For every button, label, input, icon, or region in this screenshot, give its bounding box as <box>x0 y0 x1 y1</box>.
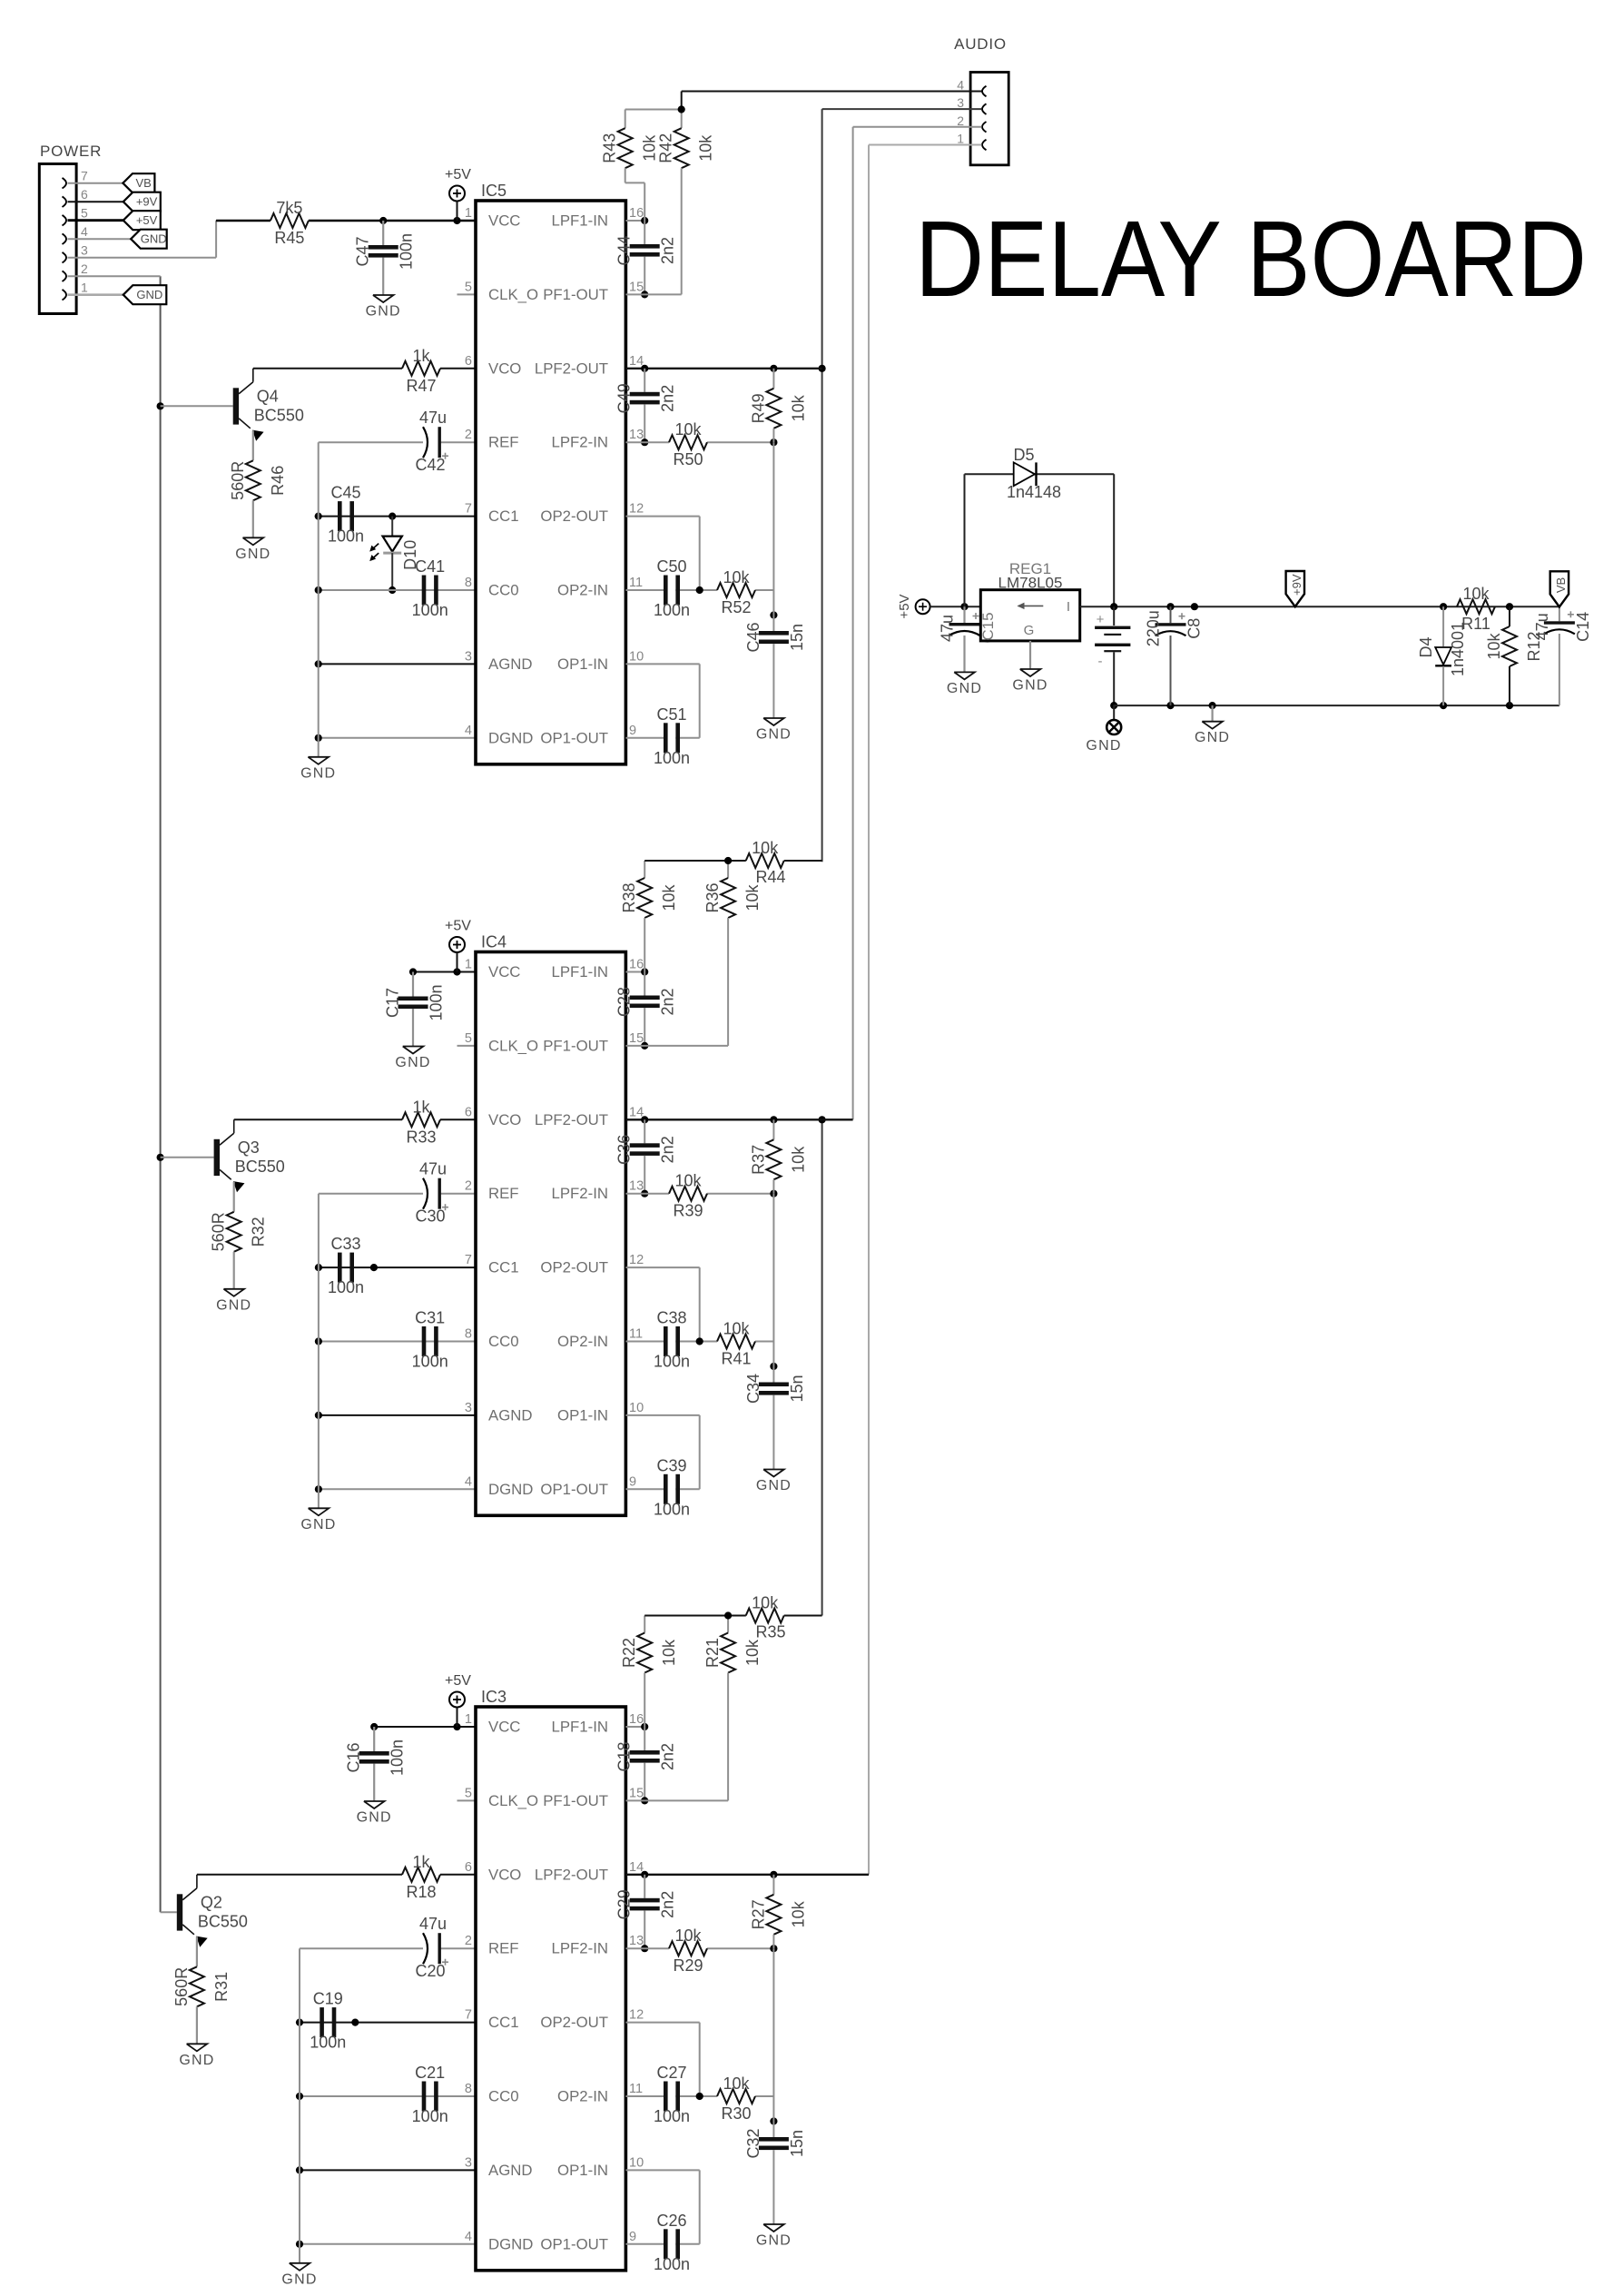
svg-text:2n2: 2n2 <box>659 988 677 1015</box>
svg-text:8: 8 <box>465 2082 472 2096</box>
svg-text:CC0: CC0 <box>488 582 519 599</box>
svg-text:DELAY BOARD: DELAY BOARD <box>915 199 1587 320</box>
svg-text:C26: C26 <box>656 2212 686 2230</box>
svg-text:R49: R49 <box>749 393 767 423</box>
svg-text:15n: 15n <box>788 624 806 651</box>
svg-text:C18: C18 <box>615 1741 634 1771</box>
svg-text:OP1-IN: OP1-IN <box>557 655 608 673</box>
svg-text:+5V: +5V <box>897 594 912 618</box>
svg-text:100n: 100n <box>328 1278 364 1296</box>
svg-text:10k: 10k <box>723 1320 750 1338</box>
svg-text:CLK_O: CLK_O <box>488 286 538 303</box>
svg-text:R45: R45 <box>274 229 304 247</box>
svg-text:100n: 100n <box>654 601 690 619</box>
svg-text:10k: 10k <box>660 1639 678 1666</box>
svg-text:1: 1 <box>465 958 472 972</box>
svg-text:+5V: +5V <box>445 167 471 182</box>
svg-text:560R: 560R <box>210 1212 228 1251</box>
svg-text:2: 2 <box>81 261 88 276</box>
svg-text:GND: GND <box>357 1810 392 1826</box>
svg-text:DGND: DGND <box>488 2235 533 2252</box>
svg-text:R32: R32 <box>250 1217 268 1247</box>
svg-text:10: 10 <box>629 1401 644 1415</box>
svg-text:LPF2-IN: LPF2-IN <box>552 1940 608 1957</box>
svg-text:OP1-IN: OP1-IN <box>557 2162 608 2179</box>
svg-text:GND: GND <box>366 304 401 320</box>
svg-text:10k: 10k <box>752 839 779 857</box>
svg-text:+5V: +5V <box>445 919 471 934</box>
svg-text:R42: R42 <box>657 133 675 163</box>
svg-text:9: 9 <box>629 2230 636 2244</box>
svg-text:R46: R46 <box>269 466 287 496</box>
svg-text:C32: C32 <box>744 2128 762 2158</box>
svg-text:AGND: AGND <box>488 655 532 673</box>
svg-text:100n: 100n <box>412 601 448 619</box>
svg-text:CC1: CC1 <box>488 507 519 525</box>
svg-text:1k: 1k <box>412 1098 430 1116</box>
svg-text:LPF1-IN: LPF1-IN <box>552 212 608 230</box>
svg-text:LPF2-OUT: LPF2-OUT <box>535 1866 608 1883</box>
svg-text:47u: 47u <box>419 409 447 427</box>
svg-text:16: 16 <box>629 206 644 221</box>
svg-text:10: 10 <box>629 2155 644 2170</box>
svg-text:C47: C47 <box>354 236 372 266</box>
svg-text:11: 11 <box>629 2082 643 2096</box>
svg-text:47u: 47u <box>1533 613 1551 640</box>
svg-text:R18: R18 <box>406 1883 436 1901</box>
svg-text:OP1-OUT: OP1-OUT <box>540 729 608 746</box>
svg-text:15: 15 <box>629 280 644 294</box>
svg-text:16: 16 <box>629 1712 644 1727</box>
svg-text:GND: GND <box>1086 738 1121 754</box>
svg-text:C38: C38 <box>656 1309 686 1327</box>
svg-text:OP2-IN: OP2-IN <box>557 582 608 599</box>
svg-text:OP2-IN: OP2-IN <box>557 2088 608 2105</box>
svg-text:VCC: VCC <box>488 212 520 230</box>
svg-text:R38: R38 <box>620 882 638 912</box>
svg-text:11: 11 <box>629 576 643 590</box>
svg-text:R21: R21 <box>703 1638 722 1668</box>
svg-text:10k: 10k <box>743 883 762 911</box>
svg-text:C27: C27 <box>656 2064 686 2082</box>
svg-text:10k: 10k <box>641 134 659 162</box>
svg-text:C14: C14 <box>1574 612 1592 642</box>
svg-text:VCO: VCO <box>488 1111 521 1128</box>
svg-text:LPF1-IN: LPF1-IN <box>552 963 608 980</box>
svg-text:BC550: BC550 <box>198 1912 248 1930</box>
svg-text:OP1-OUT: OP1-OUT <box>540 2235 608 2252</box>
svg-text:C36: C36 <box>615 1135 634 1165</box>
svg-text:GND: GND <box>300 1517 336 1532</box>
svg-text:560R: 560R <box>172 1967 191 2006</box>
svg-text:13: 13 <box>629 1179 644 1194</box>
svg-text:AGND: AGND <box>488 2162 532 2179</box>
svg-text:C31: C31 <box>415 1309 445 1327</box>
svg-text:VB: VB <box>1554 577 1568 593</box>
svg-text:C50: C50 <box>656 557 686 576</box>
svg-text:PF1-OUT: PF1-OUT <box>543 1792 608 1809</box>
svg-text:C19: C19 <box>313 1990 343 2008</box>
svg-text:11: 11 <box>629 1327 643 1342</box>
svg-text:12: 12 <box>629 2008 644 2023</box>
svg-text:10k: 10k <box>660 883 678 911</box>
svg-text:100n: 100n <box>328 527 364 546</box>
svg-text:8: 8 <box>465 576 472 590</box>
svg-text:2n2: 2n2 <box>659 1743 677 1770</box>
svg-text:3: 3 <box>465 2155 472 2170</box>
svg-text:OP2-OUT: OP2-OUT <box>540 507 608 525</box>
svg-text:LM78L05: LM78L05 <box>998 575 1063 592</box>
svg-text:6: 6 <box>465 1860 472 1875</box>
svg-text:+5V: +5V <box>136 213 158 227</box>
svg-text:1: 1 <box>957 132 964 146</box>
svg-text:10k: 10k <box>674 1926 702 1945</box>
svg-text:3: 3 <box>957 95 964 110</box>
svg-text:R30: R30 <box>721 2104 751 2123</box>
svg-text:BC550: BC550 <box>235 1158 285 1176</box>
svg-text:GND: GND <box>235 547 270 562</box>
svg-text:6: 6 <box>81 187 88 202</box>
svg-text:10k: 10k <box>743 1639 762 1666</box>
svg-text:14: 14 <box>629 1860 644 1875</box>
svg-text:1: 1 <box>81 281 88 295</box>
svg-text:10k: 10k <box>723 2074 750 2093</box>
svg-text:OP1-IN: OP1-IN <box>557 1406 608 1424</box>
svg-text:C45: C45 <box>330 484 360 502</box>
svg-text:16: 16 <box>629 958 644 972</box>
svg-text:C20: C20 <box>415 1962 445 1980</box>
svg-text:8: 8 <box>465 1327 472 1342</box>
svg-text:1k: 1k <box>412 1853 430 1871</box>
svg-text:100n: 100n <box>412 1353 448 1371</box>
svg-text:VCC: VCC <box>488 1719 520 1736</box>
svg-text:1k: 1k <box>412 347 430 365</box>
svg-text:GND: GND <box>216 1297 251 1313</box>
svg-text:R43: R43 <box>601 133 619 163</box>
svg-text:15: 15 <box>629 1031 644 1046</box>
svg-text:GND: GND <box>179 2053 214 2068</box>
svg-text:Q4: Q4 <box>257 387 279 405</box>
svg-text:9: 9 <box>629 724 636 738</box>
svg-text:15n: 15n <box>788 2130 806 2157</box>
svg-text:G: G <box>1024 623 1035 638</box>
svg-text:C34: C34 <box>744 1374 762 1404</box>
svg-text:5: 5 <box>465 1786 472 1800</box>
svg-text:R50: R50 <box>673 450 703 468</box>
svg-text:100n: 100n <box>398 233 416 270</box>
svg-text:C51: C51 <box>656 705 686 724</box>
svg-text:5: 5 <box>465 280 472 294</box>
svg-text:R41: R41 <box>721 1350 751 1368</box>
svg-text:R33: R33 <box>406 1128 436 1146</box>
svg-text:47u: 47u <box>939 615 957 642</box>
svg-text:CLK_O: CLK_O <box>488 1792 538 1809</box>
svg-text:CC1: CC1 <box>488 1259 519 1276</box>
svg-text:I: I <box>1067 599 1070 615</box>
svg-text:PF1-OUT: PF1-OUT <box>543 1037 608 1054</box>
svg-text:REF: REF <box>488 1940 519 1957</box>
svg-text:2: 2 <box>957 113 964 128</box>
svg-text:LPF2-IN: LPF2-IN <box>552 434 608 451</box>
svg-text:4: 4 <box>957 78 964 93</box>
svg-text:OP2-IN: OP2-IN <box>557 1333 608 1350</box>
svg-text:C29: C29 <box>615 1889 634 1919</box>
svg-text:R44: R44 <box>755 868 785 886</box>
svg-text:D5: D5 <box>1013 446 1034 464</box>
svg-text:2: 2 <box>465 428 472 442</box>
svg-text:GND: GND <box>756 727 792 743</box>
svg-text:C8: C8 <box>1185 618 1204 639</box>
svg-text:100n: 100n <box>654 2107 690 2125</box>
svg-text:OP1-OUT: OP1-OUT <box>540 1481 608 1498</box>
svg-text:3: 3 <box>81 243 88 258</box>
svg-text:10k: 10k <box>697 134 715 162</box>
svg-text:10k: 10k <box>674 1172 702 1190</box>
svg-text:100n: 100n <box>654 2255 690 2273</box>
svg-text:R36: R36 <box>703 882 722 912</box>
svg-text:AUDIO: AUDIO <box>954 35 1007 53</box>
svg-text:1n4148: 1n4148 <box>1007 483 1061 501</box>
svg-text:C46: C46 <box>744 622 762 652</box>
svg-text:1n4001: 1n4001 <box>1449 622 1467 676</box>
svg-text:2: 2 <box>465 1179 472 1194</box>
svg-text:CC0: CC0 <box>488 2088 519 2105</box>
svg-text:10k: 10k <box>789 394 807 421</box>
svg-text:GND: GND <box>300 765 336 781</box>
svg-text:GND: GND <box>141 232 167 246</box>
svg-text:VCO: VCO <box>488 1866 521 1883</box>
svg-text:VCC: VCC <box>488 963 520 980</box>
svg-text:+9V: +9V <box>136 195 158 209</box>
svg-text:OP2-OUT: OP2-OUT <box>540 1259 608 1276</box>
svg-text:10k: 10k <box>789 1146 807 1173</box>
svg-text:100n: 100n <box>654 1500 690 1518</box>
svg-text:C49: C49 <box>615 383 634 413</box>
svg-text:10k: 10k <box>1485 632 1503 659</box>
svg-text:REF: REF <box>488 1185 519 1202</box>
svg-text:7k5: 7k5 <box>276 199 302 217</box>
svg-text:7: 7 <box>81 169 88 183</box>
svg-text:7: 7 <box>465 2008 472 2023</box>
svg-text:BC550: BC550 <box>254 406 304 424</box>
svg-text:LPF1-IN: LPF1-IN <box>552 1719 608 1736</box>
svg-text:47u: 47u <box>419 1915 447 1933</box>
svg-text:Q2: Q2 <box>201 1893 222 1911</box>
svg-text:6: 6 <box>465 354 472 369</box>
svg-text:R39: R39 <box>673 1202 703 1220</box>
svg-text:2n2: 2n2 <box>659 385 677 412</box>
svg-text:CC0: CC0 <box>488 1333 519 1350</box>
svg-text:GND: GND <box>947 681 982 696</box>
svg-text:CLK_O: CLK_O <box>488 1037 538 1054</box>
svg-text:IC5: IC5 <box>481 182 507 200</box>
svg-text:OP2-OUT: OP2-OUT <box>540 2014 608 2031</box>
svg-text:POWER: POWER <box>40 143 102 160</box>
svg-text:R31: R31 <box>212 1972 231 2002</box>
svg-text:GND: GND <box>756 2233 792 2249</box>
svg-text:2: 2 <box>465 1934 472 1948</box>
svg-text:R27: R27 <box>749 1899 767 1929</box>
svg-text:10k: 10k <box>674 420 702 439</box>
svg-text:560R: 560R <box>229 461 247 500</box>
svg-text:DGND: DGND <box>488 1481 533 1498</box>
svg-text:4: 4 <box>465 2230 472 2244</box>
svg-text:5: 5 <box>81 206 88 221</box>
svg-text:C21: C21 <box>415 2064 445 2082</box>
svg-text:C41: C41 <box>415 557 445 576</box>
svg-text:R47: R47 <box>406 377 436 395</box>
svg-text:LPF2-OUT: LPF2-OUT <box>535 360 608 377</box>
svg-text:10k: 10k <box>1462 585 1490 603</box>
svg-text:100n: 100n <box>310 2034 346 2052</box>
svg-text:100n: 100n <box>412 2107 448 2125</box>
svg-text:-: - <box>1098 654 1103 669</box>
svg-text:D4: D4 <box>1417 636 1435 657</box>
svg-text:GND: GND <box>1012 678 1048 694</box>
svg-text:10: 10 <box>629 649 644 664</box>
svg-text:R37: R37 <box>749 1145 767 1175</box>
svg-text:C17: C17 <box>383 988 401 1018</box>
svg-text:CC1: CC1 <box>488 2014 519 2031</box>
svg-text:14: 14 <box>629 1105 644 1119</box>
svg-text:2n2: 2n2 <box>659 1891 677 1918</box>
svg-text:15: 15 <box>629 1786 644 1800</box>
svg-text:C39: C39 <box>656 1456 686 1474</box>
svg-text:12: 12 <box>629 1253 644 1267</box>
svg-text:C30: C30 <box>415 1207 445 1226</box>
svg-text:100n: 100n <box>654 749 690 767</box>
svg-text:15n: 15n <box>788 1375 806 1402</box>
svg-text:3: 3 <box>465 649 472 664</box>
svg-text:14: 14 <box>629 354 644 369</box>
svg-text:VCO: VCO <box>488 360 521 377</box>
svg-text:100n: 100n <box>428 984 446 1020</box>
svg-text:2n2: 2n2 <box>659 237 677 264</box>
svg-text:GND: GND <box>136 288 162 301</box>
svg-text:C28: C28 <box>615 987 634 1017</box>
svg-text:Q3: Q3 <box>238 1138 260 1157</box>
svg-text:R22: R22 <box>620 1638 638 1668</box>
svg-text:C42: C42 <box>415 456 445 474</box>
svg-text:3: 3 <box>465 1401 472 1415</box>
svg-text:7: 7 <box>465 1253 472 1267</box>
svg-text:10k: 10k <box>752 1594 779 1612</box>
svg-text:100n: 100n <box>654 1353 690 1371</box>
svg-text:+9V: +9V <box>1290 574 1303 596</box>
svg-text:9: 9 <box>629 1474 636 1489</box>
svg-text:GND: GND <box>1195 730 1230 745</box>
svg-text:DGND: DGND <box>488 729 533 746</box>
svg-text:R35: R35 <box>755 1623 785 1641</box>
svg-text:6: 6 <box>465 1105 472 1119</box>
svg-text:1: 1 <box>465 206 472 221</box>
svg-text:VB: VB <box>136 176 152 190</box>
svg-text:5: 5 <box>465 1031 472 1046</box>
svg-text:GND: GND <box>756 1478 792 1493</box>
svg-text:C16: C16 <box>345 1742 363 1772</box>
svg-text:GND: GND <box>395 1055 430 1070</box>
svg-text:2n2: 2n2 <box>659 1136 677 1163</box>
svg-text:100n: 100n <box>389 1739 407 1776</box>
svg-text:7: 7 <box>465 502 472 517</box>
svg-text:10k: 10k <box>789 1900 807 1927</box>
svg-text:C33: C33 <box>330 1235 360 1253</box>
svg-text:PF1-OUT: PF1-OUT <box>543 286 608 303</box>
svg-text:IC4: IC4 <box>481 933 507 951</box>
svg-text:+: + <box>1097 612 1105 627</box>
svg-text:47u: 47u <box>419 1160 447 1178</box>
svg-text:220u: 220u <box>1145 610 1163 646</box>
svg-text:IC3: IC3 <box>481 1688 507 1706</box>
svg-text:AGND: AGND <box>488 1406 532 1424</box>
svg-text:LPF2-IN: LPF2-IN <box>552 1185 608 1202</box>
svg-text:10k: 10k <box>723 568 750 586</box>
svg-text:13: 13 <box>629 428 644 442</box>
svg-text:+5V: +5V <box>445 1673 471 1689</box>
svg-text:R52: R52 <box>721 598 751 616</box>
svg-text:4: 4 <box>81 224 88 239</box>
svg-text:C15: C15 <box>979 612 997 640</box>
svg-text:4: 4 <box>465 1474 472 1489</box>
svg-text:C44: C44 <box>615 235 634 265</box>
svg-text:13: 13 <box>629 1934 644 1948</box>
svg-text:LPF2-OUT: LPF2-OUT <box>535 1111 608 1128</box>
svg-text:4: 4 <box>465 724 472 738</box>
svg-text:GND: GND <box>281 2271 317 2287</box>
svg-text:12: 12 <box>629 502 644 517</box>
svg-text:1: 1 <box>465 1712 472 1727</box>
svg-text:REF: REF <box>488 434 519 451</box>
svg-text:R29: R29 <box>673 1956 703 1975</box>
